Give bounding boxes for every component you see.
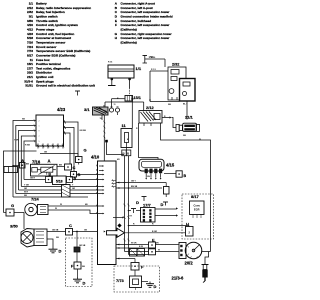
connector B below C (71, 172, 81, 178)
svg-text:D: D (161, 202, 164, 207)
wire battery feed to relay (145, 59, 165, 67)
wire to relays (149, 69, 188, 106)
svg-text:7/73: 7/73 (116, 278, 125, 283)
wires 4/23 left pins to left bus (12, 119, 33, 197)
svg-text:G: G (83, 148, 86, 153)
svg-text:B: B (48, 173, 51, 177)
svg-text:5: 5 (39, 141, 40, 143)
svg-text:W: W (199, 139, 201, 141)
pin terminal and feed to bus (105, 140, 124, 155)
temperature sensor 7/73 (116, 270, 142, 290)
wire knock sensor to control unit (48, 204, 104, 214)
svg-text:4/23: 4/23 (57, 107, 66, 112)
svg-text:7/24: 7/24 (31, 197, 40, 202)
wire C into control unit with arrow (104, 223, 122, 232)
connector on injector ground wire (164, 183, 170, 198)
wire bus right of 4/10 (123, 156, 129, 255)
injector wires down (145, 173, 161, 179)
wire C to control unit arrow (73, 231, 98, 233)
battery 1/1 (108, 65, 134, 88)
wire to H connector (125, 231, 186, 233)
spark plug 21/3-6 (172, 265, 209, 283)
svg-text:1/1: 1/1 (136, 66, 142, 71)
label D right of 17/7 (161, 202, 169, 207)
svg-text:G: G (11, 203, 14, 208)
svg-text:D: D (136, 200, 139, 205)
wires 4/23 right pins down to sensors (67, 122, 86, 172)
wire into dashed box (76, 231, 86, 247)
wire left bus to G (4, 212, 7, 214)
pins 4/23 bottom with connector hatch (37, 144, 64, 149)
wire ignition switch feeds (105, 99, 144, 129)
pins 4/10 right ticks (112, 179, 116, 187)
pins 4/23 left (33, 119, 40, 143)
svg-text:F: F (115, 23, 117, 27)
wire G to throttle switch (14, 213, 24, 230)
svg-text:R SB: R SB (25, 145, 30, 147)
svg-text:A: A (48, 158, 51, 163)
connector C lower (66, 223, 73, 235)
svg-text:8/17: 8/17 (191, 194, 200, 199)
svg-text:4/10: 4/10 (91, 155, 100, 160)
wire run 4 (13, 196, 88, 198)
ground D in dashed box (73, 277, 86, 286)
svg-text:3/1: 3/1 (84, 107, 90, 112)
svg-text:(California): (California) (121, 40, 137, 44)
wire to temperature sensor 7/73 (116, 258, 135, 263)
svg-text:31/31: 31/31 (25, 84, 33, 88)
connector B right of rail (164, 171, 187, 178)
dashed box California right (182, 194, 214, 239)
svg-text:2/32: 2/32 (172, 63, 179, 67)
distributor 20/2 (179, 242, 202, 259)
wire stub to A (13, 165, 20, 167)
ground symbol 31/31 (75, 91, 80, 96)
svg-text:B: B (184, 174, 187, 178)
wire rows to distributor (116, 244, 179, 252)
svg-text:GN SB: GN SB (80, 130, 87, 132)
svg-text:C: C (73, 165, 76, 170)
wire B to control unit (77, 174, 105, 176)
svg-text:Y GR: Y GR (24, 185, 29, 187)
wire run to 4/10 pin 1 (21, 186, 104, 188)
pins 4/23 right (64, 121, 68, 135)
svg-text:Conv: Conv (193, 204, 200, 208)
svg-text:17/7: 17/7 (143, 203, 152, 208)
svg-text:B GR: B GR (152, 231, 158, 233)
svg-text:D: D (83, 281, 86, 286)
terminal at left of 17/7 (129, 209, 141, 218)
test outlet 17/7 (141, 203, 156, 223)
connector E pair (149, 238, 156, 255)
big arrow to other diagram (107, 228, 125, 237)
wire relay to ignition coil (186, 101, 188, 120)
svg-text:20/2: 20/2 (185, 261, 194, 266)
connector H (186, 222, 194, 237)
svg-text:Ground rail in electrical dist: Ground rail in electrical distribution u… (36, 84, 95, 88)
connector F bottom (131, 263, 144, 271)
wire throttle to connector C (47, 231, 66, 233)
wire relay output to coil (162, 116, 176, 127)
svg-text:W R: W R (24, 192, 28, 194)
relay 2/12 radio interference suppression (168, 67, 186, 100)
wire 7/16 to C (57, 166, 65, 168)
throttle switch 3/50 (10, 224, 47, 248)
svg-text:5/18: 5/18 (56, 180, 63, 184)
wire 4/23 pins to connector G (40, 154, 78, 157)
svg-text:7: 7 (39, 136, 40, 138)
connector F left (71, 262, 85, 269)
svg-text:9: 9 (39, 131, 40, 133)
svg-text:15/1: 15/1 (134, 96, 141, 100)
ground D at throttle (49, 247, 62, 254)
svg-text:W: W (60, 204, 62, 206)
control unit 4/10 (91, 155, 116, 265)
control unit 4/23 (36, 107, 66, 146)
wire relay to injector rail (139, 123, 159, 159)
wire run to 4/10 pin 3 (16, 193, 105, 195)
inline connector block with hatch (62, 185, 71, 198)
injectors 4/15 (139, 159, 175, 173)
wire G stub (78, 163, 80, 165)
converter EGR 8/17 (190, 194, 205, 218)
svg-text:EGR: EGR (194, 208, 200, 212)
wire left edge bus (4, 151, 37, 213)
svg-text:Y 6R: Y 6R (14, 140, 19, 142)
wire ignition switch to 4/10 with connector hatches (103, 115, 105, 161)
wire across to H (129, 224, 190, 227)
dashed box California bottom (114, 266, 160, 292)
wire F to ground (77, 269, 79, 277)
converter 5/18 with B connectors (46, 173, 77, 185)
wire bus to 5/18 (24, 179, 46, 181)
ignition coil 21/1 (176, 115, 200, 132)
svg-text:21/3-6: 21/3-6 (172, 276, 185, 281)
svg-text:4/15: 4/15 (166, 163, 175, 168)
knock sensor 7/24 (25, 197, 48, 216)
connector A (20, 158, 26, 168)
svg-text:7/16: 7/16 (32, 159, 41, 164)
svg-text:2/12: 2/12 (146, 105, 155, 110)
wires 17/7 to converter EGR (155, 207, 178, 216)
legend, component list (24, 2, 95, 88)
svg-text:B: B (74, 177, 77, 181)
connector strip on left bus (4, 167, 18, 173)
wire connector to F (76, 252, 78, 262)
pins 4/10 left with arrows (96, 165, 104, 215)
inline connector hatched pair (125, 249, 149, 257)
connector G lower (6, 203, 14, 216)
legend, connector list (115, 2, 173, 45)
wire throttle to ground D (47, 239, 53, 247)
positive terminal 15/1 (top) (143, 55, 155, 63)
connector G (right suspension tower) (76, 148, 87, 163)
svg-text:15: 15 (114, 104, 116, 106)
wire run to 4/10 pin 2 (19, 189, 105, 191)
svg-text:3/50: 3/50 (10, 224, 19, 229)
temperature sensor 7/16 (31, 158, 58, 176)
ground D bottom right (146, 282, 157, 290)
ignition switch 3/1 (84, 104, 120, 120)
inline connector in dashed box (74, 247, 80, 252)
wire 5/18 to control unit (73, 179, 105, 181)
svg-text:D: D (154, 284, 157, 289)
terminal D above test outlet (136, 197, 146, 206)
wire colour labels (24, 57, 201, 252)
wire 7/73 to ground (142, 281, 149, 283)
svg-text:21/1: 21/1 (185, 115, 194, 120)
svg-text:Y R: Y R (129, 216, 133, 218)
pin wire to bus with arrow (113, 217, 124, 219)
injector supply wires (116, 182, 166, 189)
svg-text:2: 2 (39, 121, 40, 123)
svg-text:1: 1 (39, 126, 40, 128)
dashed box California left (66, 238, 93, 287)
connector B pair below fuse (122, 148, 131, 156)
fuse box 11 (121, 123, 132, 148)
relay 2/32 system relay (139, 105, 162, 126)
relay 2/32 fuel injection (180, 79, 196, 102)
battery minus dashed lead and terminal 15/1 (125, 88, 141, 101)
wire relay terminal to spark plugs (161, 123, 211, 252)
svg-text:GN R: GN R (30, 178, 36, 180)
wire distributor HT to spark plug (202, 252, 211, 265)
svg-text:D: D (59, 249, 62, 254)
connector C (65, 164, 76, 170)
svg-text:C: C (69, 223, 72, 228)
